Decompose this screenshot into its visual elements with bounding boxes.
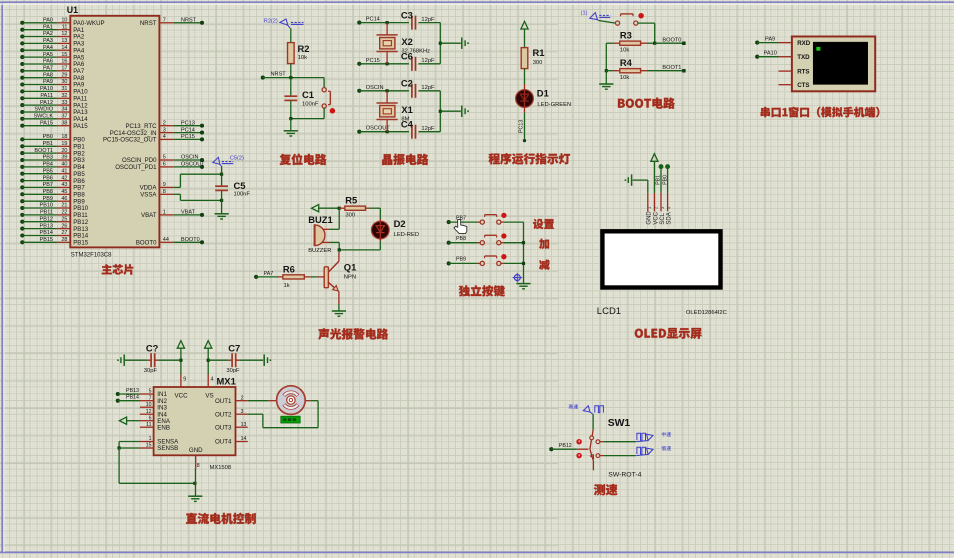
wire GND to ground: [195, 469, 197, 497]
node PB8: [447, 236, 481, 245]
svg-text:PB13: PB13: [40, 223, 53, 229]
svg-text:37: 37: [61, 114, 67, 120]
svg-text:(1): (1): [581, 11, 588, 17]
U1 right pin OSCOUT_PD1 (pin 6) to net OSCOUT: [115, 162, 205, 172]
U1 left pin PB3 (PB3, pin 39) wire+stub: [20, 155, 85, 165]
wire sense rail to gnd node: [119, 448, 196, 485]
svg-text:PC15: PC15: [366, 58, 380, 64]
MX1 pin IN4(12): [140, 409, 168, 419]
svg-text:R5: R5: [345, 195, 357, 206]
svg-text:7: 7: [163, 18, 166, 24]
svg-text:32.768KHz: 32.768KHz: [401, 49, 430, 55]
svg-text:BOOT1: BOOT1: [34, 148, 53, 154]
capacitor C7 30pF: [208, 342, 263, 374]
svg-text:SW-ROT-4: SW-ROT-4: [608, 472, 641, 479]
svg-text:TXD: TXD: [797, 54, 810, 61]
svg-text:28: 28: [61, 237, 67, 243]
svg-text:PA7: PA7: [43, 66, 53, 72]
svg-text:PB4: PB4: [43, 162, 53, 168]
svg-text:PC14: PC14: [366, 17, 380, 23]
svg-text:R3: R3: [620, 30, 632, 41]
wire C1 bottom node: [289, 101, 292, 131]
svg-text:C5: C5: [234, 180, 246, 191]
resistor R4 10k: [606, 57, 684, 81]
svg-text:R1: R1: [533, 47, 545, 58]
svg-text:C5(2): C5(2): [230, 156, 244, 162]
svg-text:PA6: PA6: [43, 59, 53, 65]
wire PB8 button to bus: [501, 242, 524, 244]
wire label flag 低速: [636, 446, 671, 456]
svg-text:SW1: SW1: [608, 418, 631, 429]
svg-text:5: 5: [149, 389, 152, 395]
wire right rail X1: [439, 91, 461, 132]
U1 left pin PA1 (PA1, pin 11) wire+stub: [20, 24, 85, 34]
oled wire SDA from PB0: [662, 165, 669, 193]
virtual terminal body: [792, 37, 875, 92]
node R5 left junction: [338, 207, 341, 210]
U1 left pin PA4 (PA4, pin 14) wire+stub: [20, 45, 85, 55]
svg-text:D1: D1: [537, 88, 549, 99]
U1 right pin VBAT (pin 1) to net VBAT: [141, 210, 204, 220]
svg-text:ENB: ENB: [157, 424, 170, 431]
svg-text:PC14: PC14: [181, 127, 195, 133]
caption 复位电路: [280, 154, 327, 165]
capacitor C? 30pF: [125, 342, 181, 374]
svg-text:PA1: PA1: [43, 24, 53, 30]
svg-text:RXD: RXD: [797, 40, 811, 47]
svg-text:38: 38: [61, 120, 67, 126]
svg-text:100nF: 100nF: [302, 101, 319, 107]
capacitor C5: [215, 180, 250, 197]
svg-text:26: 26: [61, 223, 67, 229]
oled wire GND: [647, 180, 649, 193]
svg-text:SWDIO: SWDIO: [34, 107, 53, 113]
svg-text:11: 11: [62, 24, 68, 30]
svg-text:PB12: PB12: [40, 216, 53, 222]
oled pin name VCC: [653, 211, 659, 224]
ground flag left of C?: [117, 355, 124, 366]
MX1 pin SENSB(15): [140, 443, 178, 453]
svg-text:PB14: PB14: [126, 395, 139, 401]
svg-text:R6: R6: [283, 263, 295, 274]
svg-text:Q1: Q1: [344, 261, 357, 272]
U1 left pin PB9 (PB9, pin 46) wire+stub: [20, 196, 85, 206]
svg-text:12pF: 12pF: [421, 85, 435, 91]
svg-text:PA0: PA0: [43, 18, 53, 24]
terminal pin CTS: [779, 82, 810, 89]
U1 left pin PB1 (PB1, pin 19) wire+stub: [20, 141, 85, 151]
capacitor C2 12pF: [386, 78, 441, 98]
svg-text:PA9: PA9: [43, 79, 53, 85]
label LCD1: [597, 306, 621, 317]
wire D1 to PC13: [519, 107, 526, 142]
wire button branch right: [323, 78, 325, 88]
U1 left pin PB5 (PB5, pin 41) wire+stub: [20, 168, 85, 178]
wire SENSB: [119, 447, 140, 449]
capacitor C3 12pF: [386, 10, 441, 30]
svg-text:9: 9: [163, 182, 166, 188]
U1 left pin PA7 (PA7, pin 17) wire+stub: [20, 66, 85, 76]
wire R1 to D1: [524, 69, 526, 90]
svg-text:LED-RED: LED-RED: [394, 232, 419, 238]
wire left rail R3-R4: [605, 43, 608, 72]
U1 left pin PB7 (PB7, pin 43) wire+stub: [20, 182, 85, 192]
svg-text:12pF: 12pF: [421, 126, 435, 132]
svg-text:GND: GND: [647, 211, 653, 225]
svg-text:25: 25: [61, 216, 67, 222]
svg-text:PA2: PA2: [43, 31, 53, 37]
terminal cursor: [816, 47, 820, 51]
resistor R6 1k: [277, 263, 324, 289]
motor rpm display: [281, 416, 300, 423]
warning marker 2: [577, 454, 581, 458]
svg-text:OUT2: OUT2: [215, 411, 232, 418]
svg-text:VS: VS: [205, 392, 213, 399]
capacitor C4 12pF: [386, 119, 441, 139]
svg-text:34: 34: [61, 107, 67, 113]
svg-text:R2: R2: [298, 43, 310, 54]
svg-text:OSCIN: OSCIN: [366, 85, 384, 91]
svg-text:PC13: PC13: [519, 120, 525, 133]
node OSCOUT: [357, 126, 409, 134]
U1 right pin BOOT0 (pin 44) to net BOOT0: [136, 237, 204, 247]
MX1 pin IN2(7): [140, 395, 168, 405]
svg-text:R4: R4: [620, 57, 633, 68]
wire boot button to R3 node: [638, 23, 655, 43]
node BOOT0: [653, 37, 686, 45]
svg-text:VBAT: VBAT: [181, 210, 196, 216]
resistor R3 10k: [606, 30, 654, 54]
MX1 pin OUT2(3): [215, 409, 248, 419]
svg-text:PB9: PB9: [456, 257, 466, 263]
wire emitter to ground: [332, 292, 346, 317]
ground flag right of C7: [264, 355, 271, 366]
svg-text:27: 27: [61, 230, 67, 236]
ground X2 rail: [462, 38, 469, 49]
oled wire SCL from PB1: [656, 165, 663, 193]
power arrow above VS: [205, 341, 212, 375]
svg-text:7: 7: [149, 395, 152, 401]
svg-text:PA9: PA9: [765, 37, 775, 43]
svg-text:PA11: PA11: [40, 93, 53, 99]
oled pin name SCL: [660, 212, 666, 224]
svg-text:19: 19: [61, 141, 67, 147]
svg-text:14: 14: [61, 45, 67, 51]
node OSCIN: [357, 85, 409, 93]
origin marker blue crosshair: [513, 273, 522, 282]
terminal pin RXD: [779, 40, 811, 47]
svg-text:44: 44: [163, 237, 169, 243]
node PB7: [447, 215, 481, 224]
svg-text:PB11: PB11: [40, 210, 53, 216]
svg-text:VBAT: VBAT: [141, 212, 157, 219]
svg-text:PA4: PA4: [43, 45, 53, 51]
svg-text:X2: X2: [401, 36, 412, 47]
MX1 pin IN3(10): [140, 402, 168, 412]
wire high-speed to switch: [591, 414, 594, 436]
svg-text:8: 8: [197, 463, 200, 469]
svg-text:PB15: PB15: [73, 240, 89, 247]
svg-text:43: 43: [61, 182, 67, 188]
caption 程序运行指示灯: [489, 153, 570, 164]
svg-text:10k: 10k: [620, 47, 629, 53]
U1 left pin PA12 (PA12, pin 33) wire+stub: [20, 100, 88, 110]
svg-text:OUT3: OUT3: [215, 424, 232, 431]
svg-text:4: 4: [211, 376, 214, 382]
resistor R2: [288, 43, 310, 64]
terminal pin TXD: [779, 54, 811, 61]
wire R2 bottom to NRST node: [290, 64, 292, 78]
svg-text:30pF: 30pF: [144, 368, 158, 374]
svg-text:14: 14: [241, 436, 247, 442]
node PB13: [116, 388, 140, 396]
svg-text:PB6: PB6: [43, 175, 53, 181]
display LCD1 OLED body: [602, 231, 720, 287]
svg-text:SENSB: SENSB: [157, 445, 178, 452]
ground reset circuit: [284, 131, 298, 136]
led D2 LED-RED: [371, 218, 419, 239]
MX1 pin OUT1(2): [215, 395, 248, 405]
svg-text:PA8: PA8: [43, 72, 53, 78]
svg-text:OSCIN: OSCIN: [181, 155, 198, 161]
U1 left pin PA8 (PA8, pin 29) wire+stub: [20, 72, 85, 82]
svg-text:8M: 8M: [401, 117, 409, 123]
svg-text:NPN: NPN: [344, 274, 356, 280]
U1 left pin PA9 (PA9, pin 30) wire+stub: [20, 79, 85, 89]
svg-text:PB0: PB0: [662, 175, 668, 185]
caption OLED显示屏: [635, 328, 702, 339]
chip MX1 body: [154, 387, 236, 455]
chip U1 refdes label U1: [67, 5, 78, 15]
svg-text:3: 3: [241, 409, 244, 415]
svg-text:D2: D2: [394, 218, 406, 229]
wire button bus: [522, 222, 525, 284]
svg-text:MX1: MX1: [217, 376, 236, 387]
svg-text:OUT4: OUT4: [215, 439, 232, 446]
wire buzzer top terminal: [323, 208, 339, 229]
push button reset: [322, 88, 334, 113]
svg-text:NRST: NRST: [181, 18, 197, 24]
node PA7: [254, 271, 277, 279]
svg-text:15: 15: [61, 52, 67, 58]
label SW1: [608, 418, 631, 429]
node PB14: [116, 395, 140, 403]
power terminal left of R5: [312, 205, 340, 212]
U1 left pin PB11 (PB11, pin 22) wire+stub: [20, 210, 88, 220]
svg-text:PB7: PB7: [43, 182, 53, 188]
svg-text:32: 32: [61, 93, 67, 99]
svg-text:VCC: VCC: [175, 392, 189, 399]
terminal pin RTS: [779, 69, 810, 76]
svg-text:C3: C3: [401, 10, 413, 21]
wire label flag 高速: [569, 404, 604, 414]
svg-text:1: 1: [163, 210, 166, 216]
svg-text:PC15-OSC32_OUT: PC15-OSC32_OUT: [103, 137, 157, 144]
wire label flag C5(2): [213, 156, 244, 167]
U1 left pin PA2 (PA2, pin 12) wire+stub: [20, 31, 85, 41]
svg-text:30: 30: [61, 79, 67, 85]
svg-text:PA15: PA15: [73, 123, 88, 130]
svg-text:PB1: PB1: [656, 175, 662, 185]
svg-text:PB14: PB14: [40, 230, 53, 236]
label GND inside: [189, 447, 203, 454]
svg-text:SDA: SDA: [667, 212, 673, 224]
svg-text:PA10: PA10: [764, 51, 777, 57]
MX1 pin SENSA(1): [140, 436, 179, 446]
svg-text:LED-GREEN: LED-GREEN: [537, 102, 571, 108]
svg-text:31: 31: [61, 86, 67, 92]
svg-text:18: 18: [61, 134, 67, 140]
wire buzzer bottom terminal: [322, 242, 341, 251]
svg-text:BOOT0: BOOT0: [662, 37, 681, 43]
svg-text:C?: C?: [146, 342, 159, 353]
MX1 pin OUT3(13): [215, 422, 248, 432]
U1 left pin PB13 (PB13, pin 26) wire+stub: [20, 223, 88, 233]
switch SW1 knife: [590, 440, 594, 470]
svg-text:16: 16: [61, 59, 67, 65]
svg-text:PB0: PB0: [43, 134, 53, 140]
svg-text:5: 5: [163, 155, 166, 161]
caption 设置: [533, 219, 554, 229]
chip MX1 value MX1508: [210, 465, 232, 471]
svg-text:PA3: PA3: [43, 38, 53, 44]
wire R2 top: [290, 28, 292, 42]
push button boot: [615, 14, 643, 26]
svg-text:OSCOUT_PD1: OSCOUT_PD1: [115, 164, 157, 171]
svg-text:U1: U1: [67, 5, 78, 15]
svg-text:12: 12: [146, 409, 152, 415]
ground MX1508: [188, 496, 202, 501]
svg-text:PB9: PB9: [43, 196, 53, 202]
svg-text:46: 46: [61, 196, 67, 202]
oled pin stub 1: [647, 193, 652, 211]
U1 left pin PB4 (PB4, pin 40) wire+stub: [20, 162, 85, 172]
MX1 pin ENA(6): [140, 415, 171, 425]
svg-text:PB5: PB5: [43, 168, 53, 174]
node PA9: [755, 37, 778, 45]
svg-text:VCC: VCC: [653, 211, 659, 224]
svg-text:C7: C7: [228, 342, 240, 353]
U1 left pin PA3 (PA3, pin 13) wire+stub: [20, 38, 85, 48]
svg-text:42: 42: [61, 175, 67, 181]
U1 right pin VSSA (pin 8): [140, 189, 173, 199]
svg-text:21: 21: [61, 203, 67, 209]
svg-text:RTS: RTS: [797, 69, 809, 76]
wire R5 to D2: [379, 208, 381, 221]
caption 直流电机控制: [186, 513, 256, 524]
svg-text:100nF: 100nF: [234, 192, 251, 198]
push button PB9: [480, 255, 506, 266]
svg-text:PA12: PA12: [40, 100, 53, 106]
chip U1 value label STM32F103C8: [71, 253, 112, 259]
capacitor C1: [284, 89, 318, 107]
wire C1 top: [290, 78, 292, 96]
svg-text:6: 6: [163, 162, 166, 168]
ground X1 rail: [462, 106, 469, 118]
U1 left pin PA15 (PA15, pin 38) wire+stub: [20, 120, 88, 129]
svg-text:STM32F103C8: STM32F103C8: [71, 253, 112, 259]
svg-text:BUZZER: BUZZER: [308, 248, 331, 254]
label VS inside: [205, 392, 213, 399]
wire button to bottom node: [291, 108, 324, 119]
svg-text:10: 10: [146, 402, 152, 408]
buzzer BUZ1: [308, 214, 332, 254]
svg-text:OLED12864I2C: OLED12864I2C: [686, 310, 727, 316]
svg-text:13: 13: [61, 38, 67, 44]
crystal X2: [377, 23, 431, 64]
svg-text:39: 39: [61, 155, 67, 161]
power arrow above VCC: [177, 341, 184, 375]
svg-text:22: 22: [61, 210, 67, 216]
svg-text:BOOT1: BOOT1: [662, 65, 681, 71]
U1 left pin PB2 (BOOT1, pin 20) wire+stub: [20, 148, 85, 158]
capacitor C6 12pF: [386, 51, 441, 71]
U1 left pin PB6 (PB6, pin 42) wire+stub: [20, 175, 85, 185]
svg-text:3: 3: [163, 127, 166, 133]
caption 减: [539, 260, 549, 270]
U1 right pin PC15-OSC32_OUT (pin 4) to net PC15: [103, 134, 204, 144]
oled ground flag: [625, 174, 648, 185]
svg-text:2: 2: [241, 395, 244, 401]
U1 left pin PA0-WKUP (PA0, pin 10) wire+stub: [20, 18, 104, 28]
svg-text:12: 12: [61, 31, 67, 37]
svg-text:13: 13: [241, 422, 247, 428]
chip U1 body: [70, 16, 159, 248]
U1 right pin NRST (pin 7) to net NRST: [140, 18, 204, 28]
oled pin stub 2: [653, 193, 658, 211]
svg-text:C1: C1: [302, 89, 314, 100]
node PC15: [357, 58, 409, 66]
terminal screen: [813, 42, 868, 84]
svg-text:BUZ1: BUZ1: [308, 214, 332, 225]
ground button bus: [516, 284, 530, 289]
svg-text:PC15: PC15: [181, 134, 195, 140]
oled power arrow VCC: [651, 154, 658, 193]
oled pin name GND: [647, 211, 653, 225]
wire OUT2 to motor loop: [248, 401, 318, 428]
power terminal above R1: [521, 21, 528, 47]
wire PB9 button to bus: [501, 262, 524, 264]
svg-text:PC13: PC13: [181, 120, 195, 126]
wire label flag 中速: [636, 432, 671, 442]
chip MX1 refdes: [217, 376, 236, 387]
switch SW1 contact low: [596, 454, 636, 458]
wire PB7 button to bus: [501, 221, 524, 223]
svg-text:29: 29: [61, 72, 67, 78]
resistor R1: [521, 47, 544, 68]
U1 left pin PB10 (PB10, pin 21) wire+stub: [20, 203, 88, 213]
ground BOOT divider: [599, 71, 613, 90]
node PB12: [549, 443, 588, 451]
led D1 LED-GREEN: [516, 88, 572, 108]
label SW-ROT-4: [608, 472, 641, 479]
MX1 pin GND(8) stub: [196, 455, 200, 469]
svg-text:45: 45: [61, 189, 67, 195]
ground below C5: [215, 214, 229, 219]
svg-text:PB3: PB3: [43, 155, 53, 161]
caption 串口1窗口（模拟手机端）: [761, 107, 880, 118]
svg-text:1: 1: [149, 436, 152, 442]
wire VSSA to C5 bottom node: [173, 194, 223, 202]
svg-text:PA10: PA10: [40, 86, 53, 92]
svg-text:PA15: PA15: [40, 120, 53, 126]
svg-text:2: 2: [163, 120, 166, 126]
svg-text:R2(2): R2(2): [264, 18, 278, 24]
svg-text:NRST: NRST: [271, 72, 287, 78]
svg-text:4: 4: [163, 134, 166, 140]
svg-text:PB13: PB13: [126, 388, 139, 394]
svg-text:300: 300: [533, 60, 543, 66]
